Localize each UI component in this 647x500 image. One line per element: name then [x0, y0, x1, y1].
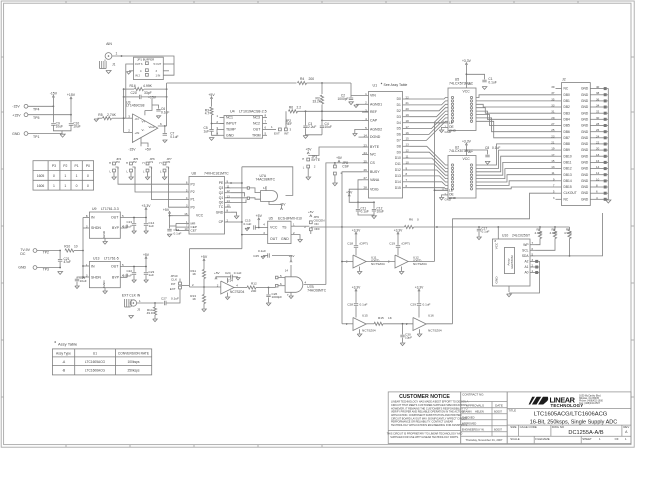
svg-text:CONVERSION RATE: CONVERSION RATE — [118, 351, 150, 355]
svg-text:OUT 6: OUT 6 — [135, 62, 143, 66]
connector J3 EXT CLK IN — [122, 293, 141, 311]
svg-text:0.1uF: 0.1uF — [171, 296, 179, 300]
power +5V at R3 — [208, 93, 215, 107]
svg-text:APPROVALS: APPROVALS — [466, 403, 484, 407]
ground at J1 — [106, 71, 111, 74]
svg-text:1606: 1606 — [37, 184, 45, 188]
svg-text:Assy Type: Assy Type — [56, 351, 71, 355]
inverter U12 NC7SZ04 — [388, 228, 435, 274]
svg-text:26: 26 — [596, 128, 600, 132]
svg-text:39: 39 — [551, 85, 555, 89]
svg-text:U1: U1 — [373, 84, 378, 88]
U1 left pin names and numbers — [362, 92, 382, 192]
svg-text:GND: GND — [281, 237, 289, 241]
jumper JP3 BYTE — [302, 148, 321, 177]
svg-text:P0: P0 — [86, 164, 90, 168]
svg-text:P0: P0 — [167, 160, 171, 164]
svg-text:C18: C18 — [347, 242, 353, 246]
svg-text:1000pF: 1000pF — [272, 295, 283, 299]
jumper JP1 BUFFER — [134, 57, 164, 79]
svg-text:TEMP: TEMP — [226, 128, 236, 132]
svg-text:WP: WP — [523, 243, 528, 247]
svg-text:NC: NC — [564, 197, 569, 201]
svg-text:CAP: CAP — [370, 119, 378, 123]
svg-text:GND: GND — [581, 173, 589, 177]
svg-text:+5V: +5V — [145, 148, 152, 152]
ground at C8 — [485, 161, 490, 164]
svg-text:LT1761-3.3: LT1761-3.3 — [101, 207, 119, 211]
capacitor C7 0.1uF — [163, 126, 179, 139]
svg-text:VCC: VCC — [270, 225, 278, 229]
wire clock to U14 — [189, 283, 220, 288]
capacitor C10 10uF — [62, 121, 81, 131]
svg-text:13: 13 — [406, 143, 410, 147]
svg-text:CONTRACT NO.: CONTRACT NO. — [462, 393, 484, 397]
svg-text:250ksps: 250ksps — [127, 369, 139, 373]
svg-text:0.1uF: 0.1uF — [161, 110, 169, 114]
jumper JP10 CLK — [170, 274, 181, 291]
capacitor C23 1uF — [144, 267, 155, 283]
svg-text:1: 1 — [76, 174, 78, 178]
svg-text:NC7SZ04: NC7SZ04 — [230, 290, 244, 294]
test point TP1 GND — [12, 132, 63, 139]
svg-text:0.1uF: 0.1uF — [174, 231, 182, 235]
ground at U7B — [287, 292, 293, 298]
svg-text:0.1uF: 0.1uF — [244, 222, 252, 226]
svg-text:10uF: 10uF — [377, 210, 384, 214]
J2 left pins — [551, 85, 576, 201]
svg-text:C20: C20 — [131, 91, 137, 95]
wire regulator input rail — [82, 218, 89, 278]
svg-text:2.2: 2.2 — [297, 106, 302, 110]
ground at C1 — [482, 87, 487, 90]
jumper pads A2 A1 A0 — [509, 260, 540, 293]
svg-text:VCC: VCC — [463, 157, 471, 161]
svg-text:BYP: BYP — [112, 226, 120, 230]
svg-text:200: 200 — [309, 77, 315, 81]
svg-text:See Assy Table: See Assy Table — [384, 83, 408, 87]
IC U4 LT1019ACS8-2.5 — [216, 110, 267, 139]
svg-text:CLKOUT: CLKOUT — [564, 191, 577, 195]
svg-text:74AC08MTC: 74AC08MTC — [256, 178, 276, 182]
svg-text:(OPT): (OPT) — [402, 242, 410, 246]
svg-text:NC7SZ04: NC7SZ04 — [371, 262, 385, 266]
title block customer notice — [387, 392, 469, 444]
svg-text:JP1 BUFFER: JP1 BUFFER — [137, 57, 154, 61]
svg-text:19: 19 — [406, 113, 410, 117]
svg-text:U1: U1 — [93, 351, 97, 355]
svg-text:SCL: SCL — [522, 248, 529, 252]
svg-text:C25: C25 — [253, 254, 259, 258]
inverter U16 NC7SZ04 — [406, 285, 453, 336]
svg-text:SIZE: SIZE — [510, 425, 516, 429]
svg-text:20: 20 — [406, 107, 410, 111]
svg-text:EXT: EXT — [170, 287, 176, 291]
wire SDA net — [536, 213, 603, 256]
svg-text:NC: NC — [564, 87, 569, 91]
svg-text:OF: OF — [615, 437, 619, 441]
svg-text:0.1uF: 0.1uF — [488, 81, 496, 85]
IC U10 24LC025 EEPROM — [492, 234, 535, 292]
svg-text:C19: C19 — [389, 242, 395, 246]
svg-text:C22: C22 — [126, 269, 132, 273]
svg-text:0: 0 — [76, 184, 78, 188]
svg-text:22: 22 — [596, 140, 600, 144]
svg-text:H: H — [126, 161, 128, 165]
svg-text:DB2: DB2 — [564, 105, 571, 109]
svg-text:CHECKED: CHECKED — [462, 415, 475, 419]
svg-text:INT: INT — [171, 282, 176, 286]
svg-text:GUY W.: GUY W. — [475, 427, 485, 431]
svg-text:GND: GND — [581, 99, 589, 103]
svg-text:U16: U16 — [428, 314, 434, 318]
wire analog signal rail — [167, 82, 297, 84]
capacitor C22 0.01uF — [123, 266, 137, 283]
svg-text:1000pF: 1000pF — [337, 97, 348, 101]
capacitor C5 1uF — [204, 124, 220, 136]
svg-text:+5V: +5V — [289, 254, 296, 258]
jumper JP7 P0 — [160, 157, 190, 207]
svg-text:D13: D13 — [395, 174, 401, 178]
svg-text:10uF: 10uF — [56, 125, 63, 129]
svg-text:NC7SZ04: NC7SZ04 — [413, 262, 427, 266]
svg-text:0.01uF: 0.01uF — [123, 225, 133, 229]
svg-text:DB7: DB7 — [564, 136, 571, 140]
svg-text:74VHC161MTC: 74VHC161MTC — [204, 172, 229, 176]
svg-text:Q1: Q1 — [219, 196, 224, 200]
svg-text:+5V: +5V — [256, 214, 263, 218]
capacitor C26 1000pF — [266, 288, 282, 306]
jumper JP5 P2 — [126, 157, 189, 192]
resistor R16 4.99K feedback — [123, 84, 168, 91]
svg-text:Fax: (408)434-0507: Fax: (408)434-0507 — [579, 402, 601, 405]
svg-text:LTC1605ACG: LTC1605ACG — [85, 360, 106, 364]
capacitor C8 0.1uF — [466, 146, 500, 157]
svg-text:GND: GND — [581, 117, 589, 121]
svg-text:-15V: -15V — [12, 104, 20, 108]
svg-text:1: 1 — [64, 184, 66, 188]
ground at C2 — [349, 102, 354, 105]
jumper JP8 CS — [334, 156, 349, 183]
ground at C3 C4 — [303, 136, 308, 139]
svg-text:DC1255A-A/B: DC1255A-A/B — [568, 430, 603, 436]
svg-text:V-: V- — [142, 128, 145, 132]
svg-text:0: 0 — [417, 217, 419, 221]
svg-text:30: 30 — [596, 116, 600, 120]
svg-text:GND: GND — [581, 197, 589, 201]
svg-text:TITLE: TITLE — [508, 409, 516, 413]
svg-text:NC3: NC3 — [253, 116, 260, 120]
svg-text:P0: P0 — [191, 205, 195, 209]
svg-text:SHDN: SHDN — [91, 226, 101, 230]
svg-text:P1: P1 — [191, 198, 195, 202]
capacitor C11 0.1uF — [356, 202, 374, 215]
svg-text:REV: REV — [623, 425, 629, 429]
svg-text:+3.3V: +3.3V — [352, 285, 361, 289]
svg-text:GND: GND — [581, 167, 589, 171]
svg-text:CAGE CODE: CAGE CODE — [520, 425, 537, 429]
svg-text:DB15: DB15 — [564, 185, 572, 189]
svg-text:D3: D3 — [397, 115, 401, 119]
resistor R12 200 — [247, 281, 269, 292]
svg-text:GND: GND — [581, 185, 589, 189]
svg-text:A0: A0 — [525, 271, 529, 275]
svg-text:GND: GND — [581, 136, 589, 140]
svg-text:GND: GND — [581, 111, 589, 115]
svg-text:+5V: +5V — [346, 190, 353, 194]
svg-text:34: 34 — [596, 104, 600, 108]
svg-text:DB11: DB11 — [564, 161, 572, 165]
svg-text:SDA: SDA — [522, 254, 530, 258]
svg-text:0.1uF: 0.1uF — [234, 271, 242, 275]
svg-text:10: 10 — [406, 160, 410, 164]
ground at U5 OE — [439, 127, 451, 134]
svg-text:SUPPLIED FOR USE WITH LINEAR T: SUPPLIED FOR USE WITH LINEAR TECHNOLOGY … — [390, 436, 459, 439]
ground at U4 GND — [209, 138, 214, 141]
svg-text:DATE: DATE — [495, 403, 503, 407]
svg-text:D4: D4 — [397, 121, 401, 125]
svg-text:H: H — [160, 161, 162, 165]
svg-text:17: 17 — [406, 125, 410, 129]
ground at U13 — [103, 291, 108, 294]
jumper JP6 P1 — [143, 157, 190, 200]
svg-text:32: 32 — [596, 110, 600, 114]
op-amp supply -15V — [128, 137, 151, 151]
resistor R11 1K — [191, 255, 208, 287]
capacitor C21 47uF — [58, 251, 71, 268]
test point TP4 -15V — [12, 104, 54, 111]
ground at TP1 — [60, 134, 65, 137]
svg-text:TS: TS — [282, 225, 287, 229]
wire op-amp inputs — [123, 89, 133, 132]
wire U8 outputs to gate — [231, 187, 261, 203]
svg-text:INPUT: INPUT — [226, 122, 237, 126]
capacitor C3 2.2uF — [303, 111, 322, 135]
IC U13 LT1761-5 — [83, 257, 146, 291]
svg-text:DB6: DB6 — [564, 130, 571, 134]
svg-text:18: 18 — [596, 153, 600, 157]
svg-text:1uF: 1uF — [204, 129, 210, 133]
svg-text:D8: D8 — [397, 144, 401, 148]
svg-text:BUSY: BUSY — [370, 170, 380, 174]
svg-text:16: 16 — [596, 159, 600, 163]
ground at AGND1 — [354, 104, 362, 107]
svg-text:HELEN: HELEN — [475, 409, 484, 413]
svg-text:0.1uF: 0.1uF — [482, 230, 490, 234]
svg-text:DB13: DB13 — [564, 173, 572, 177]
svg-text:+5V: +5V — [308, 210, 315, 214]
node REF rail junctions — [305, 110, 323, 112]
svg-text:12: 12 — [406, 149, 410, 153]
svg-text:CP: CP — [219, 220, 224, 224]
ground at C6 — [156, 116, 160, 119]
power +5V output — [143, 253, 150, 268]
svg-text:REF: REF — [286, 122, 293, 126]
svg-text:24LC025ST: 24LC025ST — [512, 234, 530, 238]
svg-text:GND: GND — [581, 179, 589, 183]
capacitor C12 10uF — [372, 202, 384, 215]
svg-text:D2: D2 — [397, 109, 401, 113]
svg-text:A2: A2 — [525, 260, 529, 264]
svg-text:THIS CIRCUIT IS PROPRIETARY TO: THIS CIRCUIT IS PROPRIETARY TO LINEAR TE… — [387, 433, 463, 436]
ground at C7 — [163, 140, 167, 143]
svg-text:D15: D15 — [395, 186, 401, 190]
svg-text:LT1019ACS8-2.5: LT1019ACS8-2.5 — [239, 110, 267, 114]
svg-text:10pF: 10pF — [405, 336, 412, 340]
svg-text:74AC08MTC: 74AC08MTC — [307, 289, 326, 293]
svg-text:V+: V+ — [142, 120, 146, 124]
svg-text:D7: D7 — [397, 139, 401, 143]
svg-text:APPROVED: APPROVED — [462, 421, 477, 425]
svg-text:U4: U4 — [230, 110, 235, 114]
svg-text:DB14: DB14 — [564, 179, 572, 183]
ground at oscillator — [298, 240, 303, 243]
svg-text:GND: GND — [102, 230, 106, 238]
svg-text:16: 16 — [406, 131, 410, 135]
svg-text:R15: R15 — [378, 316, 384, 320]
svg-text:2.74K: 2.74K — [107, 113, 117, 117]
ground at JP3 — [306, 177, 311, 180]
IC U2 latch 74LCX573MTC — [435, 145, 477, 200]
wire JP1 OUT to op-amp input — [126, 64, 174, 118]
svg-text:22: 22 — [406, 95, 410, 99]
resistor R4 200 — [298, 77, 352, 84]
svg-text:GND: GND — [581, 161, 589, 165]
svg-text:Q3: Q3 — [219, 186, 224, 190]
svg-text:CLK: CLK — [171, 277, 178, 281]
svg-text:100ksps: 100ksps — [127, 360, 139, 364]
svg-text:OUT: OUT — [253, 128, 261, 132]
wire J1 to buffer — [112, 55, 174, 75]
gate U7A 74AC08MTC — [256, 174, 278, 201]
svg-text:12: 12 — [596, 171, 600, 175]
svg-text:EXT CLK IN: EXT CLK IN — [122, 293, 141, 297]
svg-text:+5V: +5V — [306, 148, 313, 152]
svg-text:+IN: +IN — [135, 131, 140, 135]
svg-text:D10: D10 — [395, 156, 401, 160]
svg-text:-15V: -15V — [128, 148, 136, 152]
svg-text:P1: P1 — [150, 160, 154, 164]
svg-text:8/2007: 8/2007 — [494, 427, 503, 431]
svg-text:1: 1 — [116, 52, 118, 56]
svg-text:1 IN: 1 IN — [156, 73, 161, 77]
inverter U15 NC7SZ04 — [342, 285, 376, 336]
svg-text:DB3: DB3 — [564, 111, 571, 115]
resistor R3 4.7 — [205, 107, 224, 124]
wire clock input — [137, 302, 164, 304]
svg-text:GND: GND — [445, 198, 451, 202]
capacitor C16 0.1uF — [167, 228, 181, 235]
svg-text:28: 28 — [596, 122, 600, 126]
capacitor C14 1uF — [144, 218, 155, 234]
svg-text:TP5: TP5 — [33, 116, 39, 120]
wire oscillator to JP10 — [181, 249, 242, 287]
svg-text:IN 2: IN 2 — [135, 73, 140, 77]
svg-text:TECHNOLOGY APPLICATIONS ENGINE: TECHNOLOGY APPLICATIONS ENGINEERING FOR … — [391, 424, 468, 427]
svg-text:GND: GND — [18, 266, 26, 270]
svg-text:C29: C29 — [410, 303, 416, 307]
svg-text:GND: GND — [581, 105, 589, 109]
power +15V feed — [67, 93, 76, 122]
svg-text:BYTE: BYTE — [312, 158, 321, 162]
gate U7B 74AC08MTC — [269, 274, 327, 293]
wire BYTE to JP3 — [308, 147, 362, 156]
wire CLKOUT — [453, 193, 556, 324]
svg-text:+3.3V: +3.3V — [415, 285, 424, 289]
ground at R5 — [94, 119, 98, 122]
ground at J2 GND bus — [606, 200, 611, 203]
capacitor C2 1000pF — [337, 83, 368, 101]
svg-text:+3.3V: +3.3V — [352, 228, 361, 232]
svg-text:15: 15 — [406, 137, 410, 141]
capacitor C17 0.1uF — [477, 226, 490, 239]
svg-text:D6: D6 — [397, 133, 401, 137]
svg-text:TP4: TP4 — [33, 108, 39, 112]
svg-text:VANA: VANA — [370, 178, 380, 182]
ground at JP8 — [333, 183, 338, 186]
IC U1 ADC see assy table — [369, 83, 408, 198]
svg-text:16-Bit, 250ksps, Single Supply: 16-Bit, 250ksps, Single Supply ADC — [530, 419, 617, 425]
svg-text:11: 11 — [406, 154, 409, 158]
svg-text:J1: J1 — [112, 63, 116, 67]
svg-text:1605: 1605 — [37, 174, 45, 178]
bus U1 D0-D7 to U5 — [410, 98, 448, 141]
ground at C16 — [167, 234, 172, 237]
svg-text:8/2007: 8/2007 — [494, 409, 503, 413]
ground at J3 — [129, 316, 134, 319]
svg-text:10: 10 — [596, 177, 600, 181]
resistor R10 10 — [64, 245, 84, 253]
bus U2 outputs to J2 DB8-DB15 — [476, 144, 556, 189]
svg-text:C13: C13 — [126, 220, 132, 224]
wire CAP pin — [322, 119, 362, 121]
ground at JP1 pin4 — [126, 71, 133, 74]
svg-text:20: 20 — [596, 147, 600, 151]
svg-text:GND: GND — [581, 87, 589, 91]
svg-text:ECS-8FMX-010: ECS-8FMX-010 — [278, 217, 302, 221]
svg-text:GND: GND — [581, 154, 589, 158]
svg-text:LT1469CS8: LT1469CS8 — [126, 104, 144, 108]
svg-text:DB0: DB0 — [564, 93, 571, 97]
resistor R7 4.99K — [535, 227, 543, 245]
bus U1 D8-D15 to U2 — [410, 146, 448, 189]
svg-text:C8: C8 — [485, 146, 489, 150]
jumper JP2 REF — [267, 119, 292, 135]
jumper JP4 P3 — [109, 157, 189, 184]
svg-text:D12: D12 — [395, 168, 401, 172]
svg-text:14: 14 — [285, 269, 289, 273]
svg-text:DC: DC — [20, 252, 26, 256]
svg-text:24: 24 — [596, 134, 600, 138]
svg-text:0.1uF: 0.1uF — [361, 210, 369, 214]
svg-text:40: 40 — [596, 85, 600, 89]
svg-text:IN: IN — [91, 265, 95, 269]
svg-text:AGND2: AGND2 — [370, 128, 382, 132]
svg-text:-B: -B — [62, 369, 65, 373]
svg-text:CS: CS — [370, 161, 376, 165]
svg-text:10uF: 10uF — [325, 125, 332, 129]
svg-text:+15V: +15V — [148, 95, 157, 99]
input 7V-9V DC TP2 — [20, 248, 61, 256]
svg-text:0: 0 — [53, 174, 55, 178]
svg-text:0.01uF: 0.01uF — [123, 274, 133, 278]
svg-text:J3: J3 — [137, 307, 141, 311]
oscillator U5 ECS-8FMX-010 — [241, 217, 305, 244]
svg-text:5 OUT: 5 OUT — [154, 62, 162, 66]
wire VCC rail to resistors — [478, 226, 569, 239]
svg-text:ON: ON — [314, 222, 318, 226]
svg-text:10uF: 10uF — [80, 279, 87, 283]
